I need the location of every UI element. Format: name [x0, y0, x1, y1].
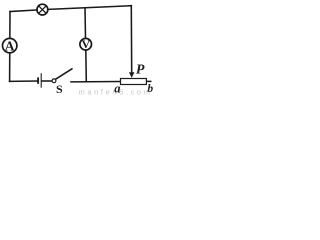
svg-text:P: P [136, 62, 145, 77]
svg-text:b: b [147, 83, 153, 95]
svg-text:V: V [81, 37, 90, 51]
svg-text:a: a [114, 81, 120, 95]
svg-text:S: S [56, 82, 63, 96]
svg-text:A: A [5, 38, 15, 53]
